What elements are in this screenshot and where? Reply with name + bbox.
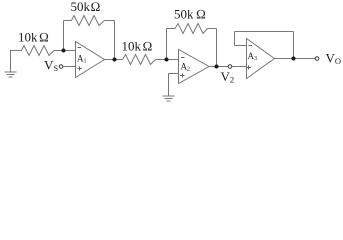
wire to Rf1 [64,20,72,22]
wire U3 feedback up [234,32,236,46]
svg-text:A3: A3 [248,51,258,62]
ground G1 [5,50,17,77]
node V2 junction dot [215,65,219,69]
svg-text:A2: A2 [181,62,191,73]
wire U3 feedback down to output [293,32,295,59]
wire plus U2 down to ground [168,74,170,97]
op-amp U3 triangle [247,39,275,79]
terminal V2 circle [228,65,232,69]
plus sign U1 [78,67,83,71]
terminal Vo circle [315,57,319,61]
resistor Rf2 50k [175,24,208,34]
pin stub plus U2 [169,73,179,75]
resistor Rf1 50k [72,16,105,26]
wire down to output node B [114,21,116,60]
ground G2 [163,96,175,101]
wire U1 output [105,59,123,61]
wire R1 to node A [54,50,64,52]
pin stub minus U3 [235,45,247,47]
wire Rf2 to corner [208,28,217,30]
node D junction dot [292,57,296,61]
wire node C up to Rf2 [166,29,168,60]
wire U3 output to Vo terminal [275,58,316,60]
plus sign U3 [247,66,252,70]
node B junction dot [113,58,117,62]
wire to Rf2 [167,28,176,30]
wire node A up to Rf1 [63,21,65,51]
resistor R2 10k [123,55,156,65]
node A junction dot [62,49,66,53]
op-amp U2 triangle [179,50,210,84]
wire R2 to node C [156,59,179,61]
svg-text:10kΩ: 10kΩ [122,39,153,54]
svg-text:VO: VO [326,51,342,67]
svg-text:VS: VS [44,58,58,74]
plus sign U2 [180,74,185,78]
op-amp U1 triangle [76,42,105,78]
terminal Vs circle [59,65,63,69]
minus sign U1 [78,47,82,49]
svg-text:10kΩ: 10kΩ [18,30,49,45]
wire U3 feedback top [235,31,294,33]
svg-text:50kΩ: 50kΩ [71,0,101,14]
pin stub minus U1 [64,50,76,52]
wire U2 output to V2 terminal [209,66,228,68]
pin stub plus U1 / wire from Vs [63,66,76,68]
node C junction dot [165,58,169,62]
svg-text:V2: V2 [221,69,235,85]
minus sign U2 [181,57,185,59]
wire down to node V2 [216,29,218,67]
wire Rf1 to corner [105,20,115,22]
wire ground to R1 [11,50,22,52]
resistor R1 10k [22,46,55,56]
wire V2 terminal to U3 plus [232,66,247,68]
svg-text:A1: A1 [77,54,87,65]
minus sign U3 [249,45,253,47]
svg-text:50kΩ: 50kΩ [174,7,206,22]
